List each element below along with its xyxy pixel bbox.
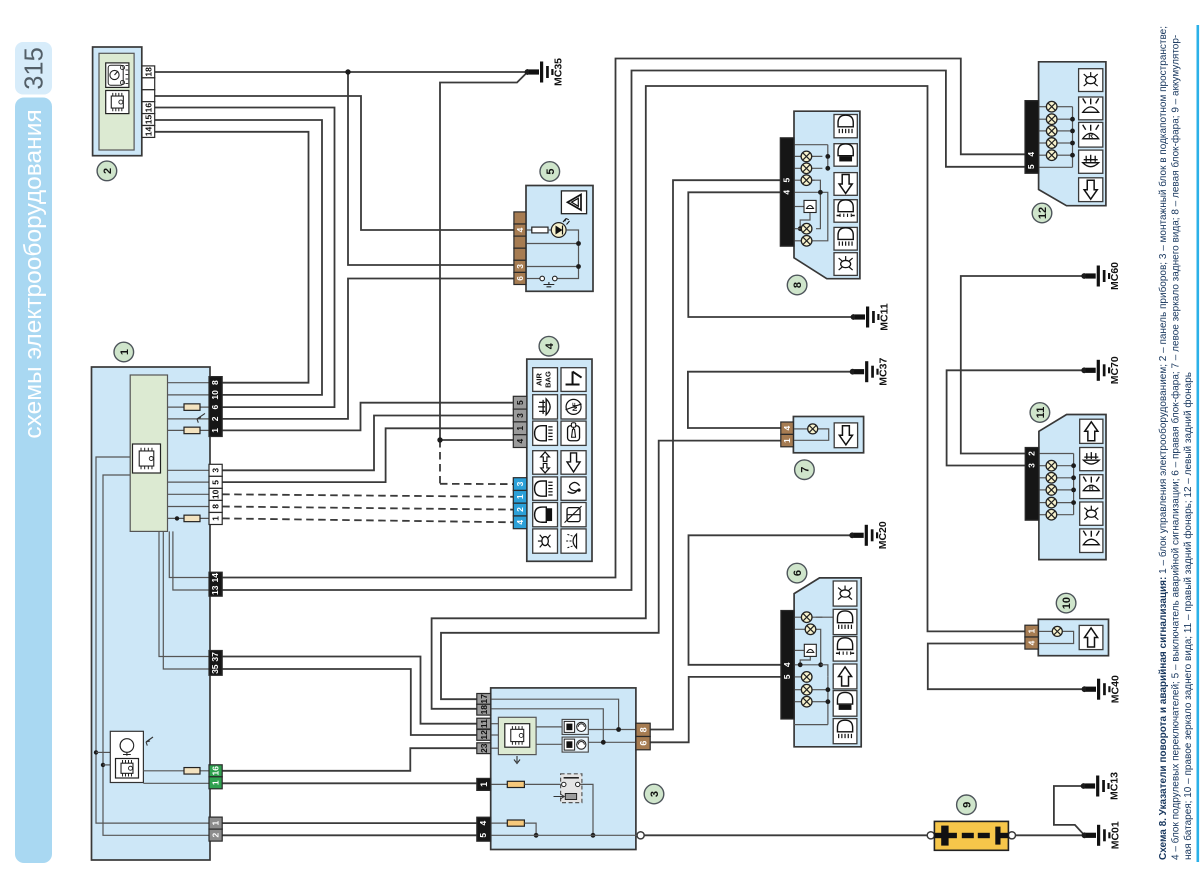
svg-text:3: 3 — [649, 791, 661, 797]
svg-text:3: 3 — [515, 264, 525, 269]
svg-text:MC40: MC40 — [1110, 675, 1122, 703]
svg-text:1: 1 — [211, 820, 221, 825]
svg-text:1: 1 — [211, 516, 221, 521]
svg-text:4: 4 — [515, 520, 525, 525]
svg-text:MC20: MC20 — [877, 521, 889, 549]
svg-text:14: 14 — [143, 126, 153, 136]
svg-text:12: 12 — [479, 730, 489, 740]
svg-text:10: 10 — [1061, 597, 1073, 609]
svg-text:1: 1 — [515, 426, 525, 431]
svg-text:4: 4 — [782, 426, 792, 431]
svg-text:35: 35 — [210, 664, 220, 674]
svg-text:17: 17 — [479, 694, 489, 704]
svg-text:16: 16 — [211, 766, 221, 776]
svg-text:MC13: MC13 — [1109, 772, 1121, 800]
svg-text:2: 2 — [210, 416, 220, 421]
svg-text:315: 315 — [21, 47, 49, 90]
svg-text:1: 1 — [211, 780, 221, 785]
svg-text:Схема 8. Указатели поворота и: Схема 8. Указатели поворота и аварийная … — [1157, 26, 1169, 860]
svg-text:3: 3 — [1026, 463, 1036, 468]
svg-text:8: 8 — [638, 727, 648, 732]
svg-text:MC01: MC01 — [1110, 821, 1122, 849]
svg-text:4: 4 — [544, 342, 556, 349]
svg-text:1: 1 — [479, 782, 489, 787]
svg-text:2: 2 — [515, 507, 525, 512]
svg-text:2: 2 — [211, 832, 221, 837]
svg-text:5: 5 — [478, 833, 488, 838]
svg-text:6: 6 — [638, 741, 648, 746]
svg-text:11: 11 — [479, 719, 489, 728]
svg-text:1: 1 — [515, 494, 525, 499]
svg-text:4: 4 — [515, 438, 525, 443]
svg-text:11: 11 — [1035, 407, 1047, 419]
svg-text:5: 5 — [782, 674, 792, 679]
svg-text:14: 14 — [210, 573, 220, 583]
svg-text:AIR: AIR — [535, 373, 544, 387]
svg-text:10: 10 — [211, 489, 221, 499]
svg-text:37: 37 — [210, 652, 220, 662]
svg-text:3: 3 — [211, 468, 221, 473]
svg-text:8: 8 — [210, 380, 220, 385]
svg-text:4 – блок подрулевых переключат: 4 – блок подрулевых переключателей; 5 – … — [1170, 35, 1182, 860]
svg-text:18: 18 — [479, 705, 489, 715]
svg-text:6: 6 — [210, 404, 220, 409]
svg-text:R: R — [1088, 133, 1093, 140]
svg-text:MC37: MC37 — [878, 358, 890, 386]
svg-text:13: 13 — [210, 585, 220, 595]
svg-text:5: 5 — [211, 480, 221, 485]
svg-text:5: 5 — [545, 168, 557, 174]
svg-text:15: 15 — [143, 115, 153, 125]
svg-text:R: R — [1089, 485, 1094, 492]
svg-text:5: 5 — [1026, 164, 1036, 169]
svg-text:23: 23 — [479, 743, 489, 753]
svg-text:10: 10 — [210, 390, 220, 400]
svg-text:1: 1 — [119, 349, 131, 355]
svg-text:9: 9 — [961, 802, 973, 808]
svg-text:ная батарея; 10 – правое зерка: ная батарея; 10 – правое зеркало заднего… — [1182, 372, 1194, 860]
svg-text:3: 3 — [515, 481, 525, 486]
svg-text:6: 6 — [515, 276, 525, 281]
svg-text:5: 5 — [515, 400, 525, 405]
svg-text:2: 2 — [1026, 451, 1036, 456]
svg-text:8: 8 — [792, 282, 804, 288]
svg-text:4: 4 — [782, 662, 792, 667]
svg-text:3: 3 — [515, 413, 525, 418]
svg-text:4: 4 — [1026, 152, 1036, 157]
svg-text:1: 1 — [210, 428, 220, 433]
svg-text:1: 1 — [782, 438, 792, 443]
svg-text:4: 4 — [515, 227, 525, 232]
svg-text:6: 6 — [792, 570, 804, 576]
svg-text:7: 7 — [799, 467, 811, 473]
svg-text:MC60: MC60 — [1109, 262, 1121, 290]
svg-text:4: 4 — [478, 820, 488, 825]
svg-text:8: 8 — [211, 504, 221, 509]
svg-text:4: 4 — [1027, 640, 1037, 645]
svg-text:MC35: MC35 — [553, 58, 565, 86]
svg-text:16: 16 — [143, 103, 153, 113]
svg-text:5: 5 — [782, 178, 792, 183]
svg-text:12: 12 — [1037, 207, 1049, 219]
svg-text:2: 2 — [102, 168, 114, 174]
svg-text:4: 4 — [782, 190, 792, 195]
svg-text:схемы электрооборудования: схемы электрооборудования — [20, 109, 47, 438]
svg-text:BAG: BAG — [544, 371, 553, 388]
svg-text:18: 18 — [143, 67, 153, 77]
svg-text:MC11: MC11 — [879, 303, 891, 331]
svg-text:MC70: MC70 — [1109, 356, 1121, 384]
svg-text:1: 1 — [1027, 628, 1037, 633]
